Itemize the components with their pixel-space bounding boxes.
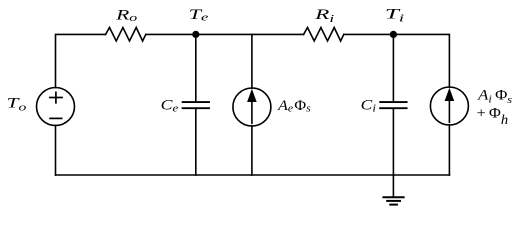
wire bottom rail (56, 174, 450, 176)
current source A_i arrow (445, 88, 455, 123)
wire R_i to node T_i to top-right corner (344, 34, 450, 87)
current source A_e arrow (247, 89, 257, 124)
wire A_e branch upper (251, 34, 253, 88)
wire C_e branch lower (195, 109, 197, 175)
current source A_e circle (233, 88, 271, 126)
svg-text:Ae Φs: Ae Φs (277, 98, 311, 114)
svg-text:Te: Te (189, 7, 209, 24)
ground (383, 175, 403, 205)
wire T_o bottom segment (55, 125, 57, 175)
svg-text:Ri: Ri (314, 7, 335, 25)
resistor R_o (106, 28, 146, 42)
wire node T_e to A_e branch to R_i (196, 33, 304, 35)
voltage source T_o circle (37, 88, 75, 126)
wire R_o to node T_e (146, 33, 196, 35)
wire top-left segment (T_o top to R_o) (56, 34, 106, 87)
svg-text:Ti: Ti (385, 7, 404, 25)
wire C_i branch lower (392, 109, 394, 175)
node T_e dot (192, 31, 199, 38)
svg-text:Ro: Ro (115, 7, 138, 24)
current source A_i circle (430, 87, 468, 125)
wire A_i bottom segment (448, 125, 450, 175)
svg-text:Ci: Ci (361, 98, 376, 115)
node T_i dot (390, 31, 397, 38)
resistor R_i (304, 28, 344, 42)
voltage source plus sign (50, 92, 62, 102)
capacitor C_i (380, 102, 406, 108)
svg-text:+ Φh: + Φh (477, 105, 509, 127)
voltage source minus sign (50, 117, 62, 119)
wire A_e branch lower (251, 126, 253, 175)
capacitor C_e (183, 102, 209, 108)
svg-text:Ce: Ce (161, 98, 179, 115)
svg-text:Ai Φs: Ai Φs (477, 87, 512, 105)
svg-text:To: To (7, 96, 27, 114)
wire C_i branch upper (392, 34, 394, 101)
wire C_e branch upper (195, 34, 197, 101)
